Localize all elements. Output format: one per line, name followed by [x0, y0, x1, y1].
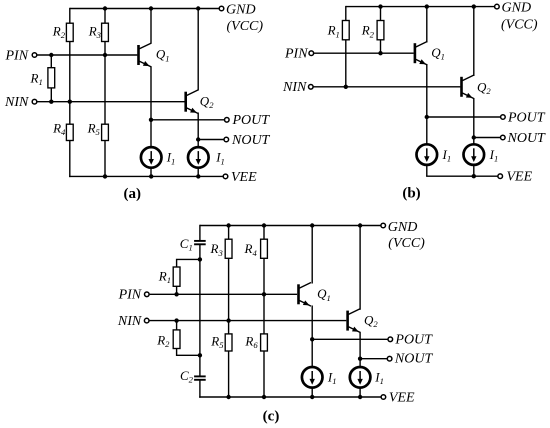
wire: (c) R1 bottom lead — [176, 286, 178, 294]
wire: (c) R3/R5 branch vertical (rail to VEE rail) — [228, 226, 230, 398]
terminal POUT (a) — [225, 118, 230, 123]
transistor Q2 (a) — [184, 92, 187, 112]
capacitor C2 (c) — [194, 376, 206, 379]
wire: (c) VEE bottom rail — [199, 396, 381, 398]
wire: (b) current source I1 left vertical — [426, 117, 428, 176]
wire: (a) current source I1 right vertical — [197, 140, 199, 177]
wire: (b) Q1 collector vertical — [426, 7, 428, 43]
wire: (a) current source I1 left vertical — [150, 120, 152, 177]
svg-text:(VCC): (VCC) — [227, 19, 264, 34]
junction dot (c) POUT node — [310, 337, 314, 341]
terminal GND (c) — [381, 223, 386, 228]
wire: (a) NIN line — [37, 101, 185, 103]
wire: (b) Q2 emitter vertical to NOUT node — [473, 98, 475, 138]
wire: (a) R2 branch vertical (rail to NIN) — [69, 8, 71, 102]
current source I1 right (b) — [464, 144, 485, 165]
wire: (a) R3/R5 branch vertical (rail to VEE rail) — [104, 9, 106, 177]
wire: (b) R1 branch vertical (rail to NIN) — [345, 6, 347, 87]
resistor R4 (c) — [261, 239, 268, 258]
junction dots (a) NIN line — [49, 100, 53, 104]
capacitor C1 (c) — [194, 241, 206, 244]
wire: (b) top GND/VCC rail — [346, 6, 495, 8]
svg-text:PIN: PIN — [284, 47, 308, 62]
junction dots (a) top rail — [103, 6, 107, 10]
resistor R4 (a) — [66, 124, 73, 140]
svg-text:(b): (b) — [402, 185, 420, 201]
resistor R6 (c) — [261, 334, 268, 351]
transistor Q1 (a) — [137, 45, 140, 65]
svg-text:(VCC): (VCC) — [501, 17, 538, 32]
svg-text:POUT: POUT — [507, 110, 546, 125]
wire: (c) POUT line — [312, 338, 388, 340]
transistor Q1 (b) — [414, 43, 417, 63]
junction dots (a) VEE rail — [103, 174, 107, 178]
wire: (b) Q2 collector vertical — [473, 7, 475, 76]
wire: (c) current source I1 right vertical — [359, 359, 361, 397]
wire: (b) PIN line — [314, 52, 414, 54]
svg-text:NIN: NIN — [4, 95, 29, 110]
wire: (c) R2 top lead — [176, 321, 178, 330]
svg-text:NIN: NIN — [282, 80, 307, 95]
svg-text:VEE: VEE — [389, 390, 415, 405]
wire: (c) PIN line — [150, 293, 298, 295]
wire: (b) Q1 emitter vertical to POUT node — [426, 64, 428, 117]
wire: (c) capacitor branch vertical (rail to VEE) — [199, 225, 201, 398]
resistor R1 (c) — [173, 267, 180, 286]
current source I1 right (a) — [188, 147, 209, 168]
transistor Q2 (b) — [460, 77, 463, 97]
junction dots (c) top rail — [226, 223, 230, 227]
terminal NOUT (b) — [501, 135, 506, 140]
transistor Q2 (c) — [346, 311, 349, 331]
wire: (c) R4/R6 branch vertical (rail to VEE rail) — [263, 226, 265, 398]
svg-text:PIN: PIN — [5, 48, 29, 63]
transistor Q1 (c) — [297, 284, 300, 304]
wire: (a) top GND/VCC rail — [70, 8, 219, 10]
wire: (c) Q1 collector vertical — [311, 226, 313, 284]
wire: (a) Q2 emitter vertical to NOUT node — [197, 113, 199, 140]
terminal PIN (a) — [32, 53, 37, 58]
junction dot (b) NIN/R1 — [344, 85, 348, 89]
junction dot (b) VEE rail — [472, 174, 476, 178]
terminal POUT (c) — [388, 337, 393, 342]
wire: (c) R1 top jog — [177, 259, 200, 267]
svg-text:(VCC): (VCC) — [388, 236, 425, 251]
svg-text:POUT: POUT — [394, 333, 433, 348]
wire: (c) NOUT line — [360, 358, 387, 360]
wire: (a) PIN line — [37, 54, 138, 56]
terminal VEE (c) — [381, 395, 386, 400]
wire: (c) NIN line — [150, 320, 347, 322]
terminal GND (a) — [219, 6, 224, 11]
wire: (c) Q2 emitter vertical to NOUT node — [359, 332, 361, 359]
wire: (c) R2 bottom jog — [177, 349, 200, 356]
svg-text:VEE: VEE — [507, 170, 533, 185]
terminal POUT (b) — [501, 115, 506, 120]
wire: (a) Q2 collector vertical — [197, 9, 199, 91]
resistor R5 (c) — [225, 334, 232, 351]
svg-text:GND: GND — [388, 220, 418, 235]
resistor R1 (a) — [48, 68, 55, 88]
svg-text:(a): (a) — [124, 186, 142, 202]
junction dot (c) C2/R2 node — [198, 353, 202, 357]
wire: (a) Q1 collector vertical — [150, 9, 152, 44]
svg-text:GND: GND — [502, 1, 532, 16]
junction dot (c) C1/R1 node — [198, 257, 202, 261]
terminal NIN (c) — [144, 318, 149, 323]
resistor R3 (c) — [225, 239, 232, 258]
wire: (b) NIN line — [314, 86, 461, 88]
current source I1 left (b) — [417, 144, 438, 165]
svg-text:NOUT: NOUT — [394, 351, 434, 366]
junction dot (b) POUT node — [425, 115, 429, 119]
junction dot (a) POUT node — [149, 118, 153, 122]
svg-text:GND: GND — [226, 3, 256, 18]
resistor R3 (a) — [102, 23, 109, 41]
wire: (b) current source I1 right vertical — [473, 138, 475, 177]
wire: (c) current source I1 left vertical — [311, 339, 313, 397]
terminal NIN (a) — [32, 99, 37, 104]
current source I1 right (c) — [350, 367, 371, 388]
current source I1 left (a) — [141, 147, 162, 168]
wire: (b) VEE bottom rail — [426, 175, 498, 177]
wire: (b) NOUT line — [474, 137, 501, 139]
svg-text:NOUT: NOUT — [507, 131, 547, 146]
terminal NOUT (a) — [224, 137, 229, 142]
junction dot (a) NOUT node — [196, 137, 200, 141]
terminal NIN (b) — [309, 85, 314, 90]
wire: (a) POUT line — [151, 119, 224, 121]
wire: (a) Q1 emitter vertical to POUT node — [150, 66, 152, 120]
wire: (b) POUT line — [427, 116, 501, 118]
wire: (a) R4 branch vertical (NIN to VEE rail) — [69, 102, 71, 177]
terminal PIN (b) — [309, 51, 314, 56]
junction dots (c) NIN line — [174, 318, 178, 322]
current source I1 left (c) — [302, 367, 323, 388]
wire: (c) Q2 collector vertical — [359, 226, 361, 310]
wire: (c) Q1 emitter vertical to POUT node — [311, 306, 313, 340]
wire: (a) R1 vertical (PIN to NIN) — [50, 55, 52, 102]
wire: (b) R2 branch vertical (rail to PIN) — [380, 7, 382, 54]
junction dot (b) NOUT node — [472, 135, 476, 139]
wire: (a) NOUT line — [198, 139, 224, 141]
terminal GND (b) — [495, 4, 500, 9]
terminal NOUT (c) — [387, 356, 392, 361]
junction dot (c) NOUT node — [358, 357, 362, 361]
resistor R2 (b) — [377, 21, 384, 40]
svg-text:NOUT: NOUT — [231, 133, 271, 148]
resistor R2 (c) — [173, 330, 180, 349]
resistor R2 (a) — [66, 23, 73, 41]
wire: (c) top GND/VCC rail — [200, 225, 381, 227]
terminal VEE (b) — [498, 174, 503, 179]
svg-text:(c): (c) — [263, 409, 280, 425]
svg-text:NIN: NIN — [117, 314, 142, 329]
junction dot (b) PIN/R2 — [378, 51, 382, 55]
resistor R1 (b) — [342, 21, 349, 40]
svg-text:PIN: PIN — [118, 288, 142, 303]
svg-text:VEE: VEE — [231, 170, 257, 185]
terminal PIN (c) — [145, 292, 150, 297]
resistor R5 (a) — [102, 124, 109, 140]
svg-text:POUT: POUT — [232, 113, 271, 128]
junction dots (a) PIN line — [49, 53, 53, 57]
junction dots (b) top rail — [378, 4, 382, 8]
wire: (a) VEE bottom rail — [69, 175, 223, 177]
junction dots (c) PIN line — [174, 292, 178, 296]
terminal VEE (a) — [223, 174, 228, 179]
junction dots (c) VEE rail — [226, 395, 230, 399]
